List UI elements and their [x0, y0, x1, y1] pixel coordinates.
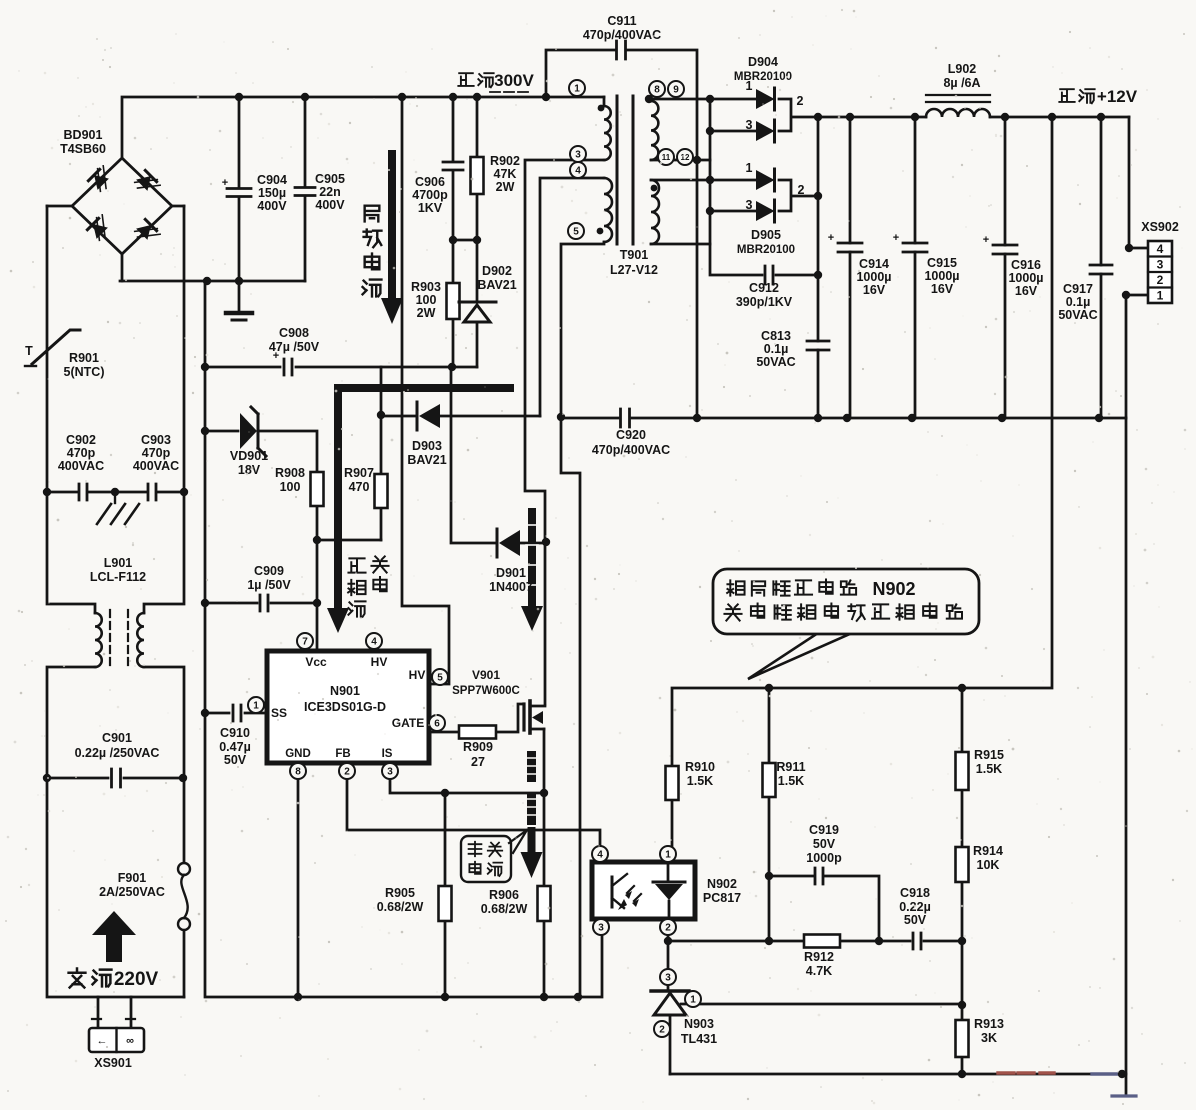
- svg-text:50VAC: 50VAC: [756, 355, 795, 369]
- svg-text:27: 27: [471, 755, 485, 769]
- svg-text:400V: 400V: [315, 198, 345, 212]
- svg-text:R913: R913: [974, 1017, 1004, 1031]
- svg-text:C917: C917: [1063, 282, 1093, 296]
- svg-text:T901: T901: [620, 248, 649, 262]
- svg-text:R915: R915: [974, 748, 1004, 762]
- svg-text:2: 2: [797, 94, 804, 108]
- svg-text:1: 1: [253, 701, 259, 712]
- svg-text:R901: R901: [69, 351, 99, 365]
- svg-text:9: 9: [673, 85, 679, 96]
- svg-text:16V: 16V: [863, 283, 886, 297]
- svg-text:2: 2: [798, 183, 805, 197]
- svg-text:4: 4: [1157, 242, 1164, 256]
- svg-text:C916: C916: [1011, 258, 1041, 272]
- svg-text:3: 3: [575, 150, 581, 161]
- svg-text:5(NTC): 5(NTC): [64, 365, 105, 379]
- svg-text:5: 5: [573, 227, 579, 238]
- svg-text:1000µ: 1000µ: [924, 269, 959, 283]
- svg-text:MBR20100: MBR20100: [737, 244, 795, 256]
- svg-text:R910: R910: [685, 760, 715, 774]
- svg-text:0.22µ /250VAC: 0.22µ /250VAC: [75, 746, 160, 760]
- svg-text:470p: 470p: [67, 446, 96, 460]
- svg-text:3K: 3K: [981, 1031, 997, 1045]
- svg-text:4700p: 4700p: [412, 188, 448, 202]
- svg-text:50V: 50V: [813, 837, 836, 851]
- svg-text:11: 11: [662, 153, 671, 162]
- svg-text:+: +: [828, 232, 834, 244]
- svg-text:IS: IS: [382, 748, 393, 760]
- svg-text:C912: C912: [749, 281, 779, 295]
- svg-text:SPP7W600C: SPP7W600C: [452, 685, 520, 697]
- svg-text:N902: N902: [707, 877, 737, 891]
- svg-text:50VAC: 50VAC: [1058, 308, 1097, 322]
- svg-text:PC817: PC817: [703, 891, 741, 905]
- svg-text:400VAC: 400VAC: [133, 459, 179, 473]
- svg-text:V901: V901: [472, 668, 500, 682]
- svg-text:+12V: +12V: [1097, 87, 1138, 106]
- svg-text:MBR20100: MBR20100: [734, 71, 792, 83]
- svg-text:Vcc: Vcc: [305, 655, 327, 669]
- svg-text:+: +: [983, 234, 989, 246]
- svg-text:+: +: [222, 177, 228, 189]
- svg-text:L27-V12: L27-V12: [610, 263, 658, 277]
- svg-text:C909: C909: [254, 564, 284, 578]
- svg-text:1: 1: [1157, 289, 1164, 303]
- svg-text:0.68/2W: 0.68/2W: [481, 902, 528, 916]
- svg-text:4: 4: [371, 637, 377, 648]
- svg-text:D905: D905: [751, 228, 781, 242]
- svg-text:8µ /6A: 8µ /6A: [943, 76, 980, 90]
- svg-text:HV: HV: [409, 668, 426, 682]
- svg-text:0.68/2W: 0.68/2W: [377, 900, 424, 914]
- svg-text:SS: SS: [271, 706, 287, 720]
- svg-text:5: 5: [437, 673, 443, 684]
- svg-text:L901: L901: [104, 556, 133, 570]
- svg-text:C911: C911: [607, 14, 636, 28]
- svg-text:47µ /50V: 47µ /50V: [269, 340, 320, 354]
- svg-text:400V: 400V: [257, 199, 287, 213]
- svg-text:C914: C914: [859, 257, 889, 271]
- svg-text:R914: R914: [973, 844, 1003, 858]
- svg-text:0.1µ: 0.1µ: [764, 342, 789, 356]
- svg-text:2: 2: [1157, 273, 1164, 287]
- svg-text:D904: D904: [748, 55, 778, 69]
- svg-text:C904: C904: [257, 173, 287, 187]
- svg-text:VD901: VD901: [230, 449, 268, 463]
- svg-text:16V: 16V: [1015, 284, 1038, 298]
- svg-text:GND: GND: [285, 748, 311, 760]
- svg-text:C906: C906: [415, 175, 445, 189]
- svg-text:+: +: [893, 232, 899, 244]
- svg-text:47K: 47K: [494, 167, 517, 181]
- svg-text:3: 3: [387, 767, 393, 778]
- svg-text:XS901: XS901: [94, 1056, 132, 1070]
- svg-text:2: 2: [344, 767, 350, 778]
- svg-text:1KV: 1KV: [418, 201, 443, 215]
- svg-text:0.1µ: 0.1µ: [1066, 295, 1091, 309]
- svg-text:XS902: XS902: [1141, 220, 1179, 234]
- svg-text:1: 1: [746, 161, 753, 175]
- svg-text:N903: N903: [684, 1017, 714, 1031]
- svg-text:1.5K: 1.5K: [687, 774, 713, 788]
- svg-text:BD901: BD901: [64, 128, 103, 142]
- svg-text:0.47µ: 0.47µ: [219, 740, 251, 754]
- svg-text:470p: 470p: [142, 446, 171, 460]
- svg-text:R905: R905: [385, 886, 415, 900]
- svg-text:2: 2: [665, 923, 671, 934]
- svg-text:L902: L902: [948, 62, 977, 76]
- svg-text:1: 1: [665, 850, 671, 861]
- svg-text:50V: 50V: [224, 753, 247, 767]
- svg-text:2A/250VAC: 2A/250VAC: [99, 885, 165, 899]
- svg-text:16V: 16V: [931, 282, 954, 296]
- svg-text:470: 470: [349, 480, 370, 494]
- svg-text:BAV21: BAV21: [477, 278, 516, 292]
- svg-text:C902: C902: [66, 433, 96, 447]
- svg-text:R912: R912: [804, 950, 834, 964]
- svg-text:100: 100: [280, 480, 301, 494]
- svg-text:2W: 2W: [417, 306, 436, 320]
- svg-text:C901: C901: [102, 731, 132, 745]
- svg-text:8: 8: [295, 767, 301, 778]
- svg-text:C915: C915: [927, 256, 957, 270]
- svg-text:3: 3: [598, 923, 604, 934]
- svg-text:F901: F901: [118, 871, 147, 885]
- svg-text:470p/400VAC: 470p/400VAC: [583, 28, 661, 42]
- svg-text:3: 3: [1157, 258, 1164, 272]
- svg-text:1000µ: 1000µ: [856, 270, 891, 284]
- svg-text:300V: 300V: [494, 71, 534, 90]
- svg-text:HV: HV: [371, 655, 388, 669]
- svg-text:R906: R906: [489, 888, 519, 902]
- svg-text:3: 3: [746, 198, 753, 212]
- svg-text:N902: N902: [872, 579, 915, 599]
- svg-text:T4SB60: T4SB60: [60, 142, 106, 156]
- svg-text:R909: R909: [463, 740, 493, 754]
- svg-text:1000p: 1000p: [806, 851, 842, 865]
- svg-text:ICE3DS01G-D: ICE3DS01G-D: [304, 700, 386, 714]
- svg-text:GATE: GATE: [392, 716, 424, 730]
- svg-text:C903: C903: [141, 433, 171, 447]
- svg-text:22n: 22n: [319, 185, 341, 199]
- svg-text:C920: C920: [616, 428, 646, 442]
- svg-text:10K: 10K: [977, 858, 1000, 872]
- svg-text:12: 12: [681, 153, 690, 162]
- svg-text:C919: C919: [809, 823, 839, 837]
- svg-text:D903: D903: [412, 439, 442, 453]
- svg-text:1.5K: 1.5K: [976, 762, 1002, 776]
- svg-text:3: 3: [746, 118, 753, 132]
- svg-text:T: T: [25, 344, 33, 358]
- svg-text:390p/1KV: 390p/1KV: [736, 295, 793, 309]
- svg-text:7: 7: [302, 637, 308, 648]
- svg-text:4: 4: [575, 166, 581, 177]
- svg-text:8: 8: [654, 85, 660, 96]
- svg-text:N901: N901: [330, 684, 360, 698]
- svg-text:C918: C918: [900, 886, 930, 900]
- svg-text:1N4007: 1N4007: [489, 580, 533, 594]
- svg-text:4.7K: 4.7K: [806, 964, 832, 978]
- svg-text:1: 1: [574, 84, 580, 95]
- svg-text:220V: 220V: [114, 969, 159, 990]
- svg-text:400VAC: 400VAC: [58, 459, 104, 473]
- svg-text:R903: R903: [411, 280, 441, 294]
- svg-text:1.5K: 1.5K: [778, 774, 804, 788]
- svg-text:1µ /50V: 1µ /50V: [247, 578, 291, 592]
- svg-text:C908: C908: [279, 326, 309, 340]
- svg-text:4: 4: [597, 850, 603, 861]
- svg-text:D901: D901: [496, 566, 526, 580]
- svg-text:18V: 18V: [238, 463, 261, 477]
- svg-text:←: ←: [97, 1035, 108, 1047]
- svg-text:C813: C813: [761, 329, 791, 343]
- svg-text:BAV21: BAV21: [407, 453, 446, 467]
- svg-text:LCL-F112: LCL-F112: [90, 570, 146, 584]
- svg-text:R908: R908: [275, 466, 305, 480]
- svg-text:2W: 2W: [496, 180, 515, 194]
- svg-text:50V: 50V: [904, 913, 927, 927]
- svg-text:∞: ∞: [126, 1035, 134, 1047]
- svg-text:1: 1: [690, 995, 696, 1006]
- svg-text:FB: FB: [335, 748, 350, 760]
- svg-text:1000µ: 1000µ: [1008, 271, 1043, 285]
- svg-text:R911: R911: [776, 760, 805, 774]
- svg-text:2: 2: [659, 1025, 665, 1036]
- svg-text:150µ: 150µ: [258, 186, 286, 200]
- svg-text:R902: R902: [490, 154, 520, 168]
- svg-text:470p/400VAC: 470p/400VAC: [592, 443, 670, 457]
- svg-text:R907: R907: [344, 466, 374, 480]
- svg-text:TL431: TL431: [681, 1032, 717, 1046]
- svg-text:C905: C905: [315, 172, 345, 186]
- svg-text:100: 100: [416, 293, 437, 307]
- svg-text:6: 6: [434, 719, 440, 730]
- svg-text:3: 3: [665, 973, 671, 984]
- svg-text:C910: C910: [220, 726, 250, 740]
